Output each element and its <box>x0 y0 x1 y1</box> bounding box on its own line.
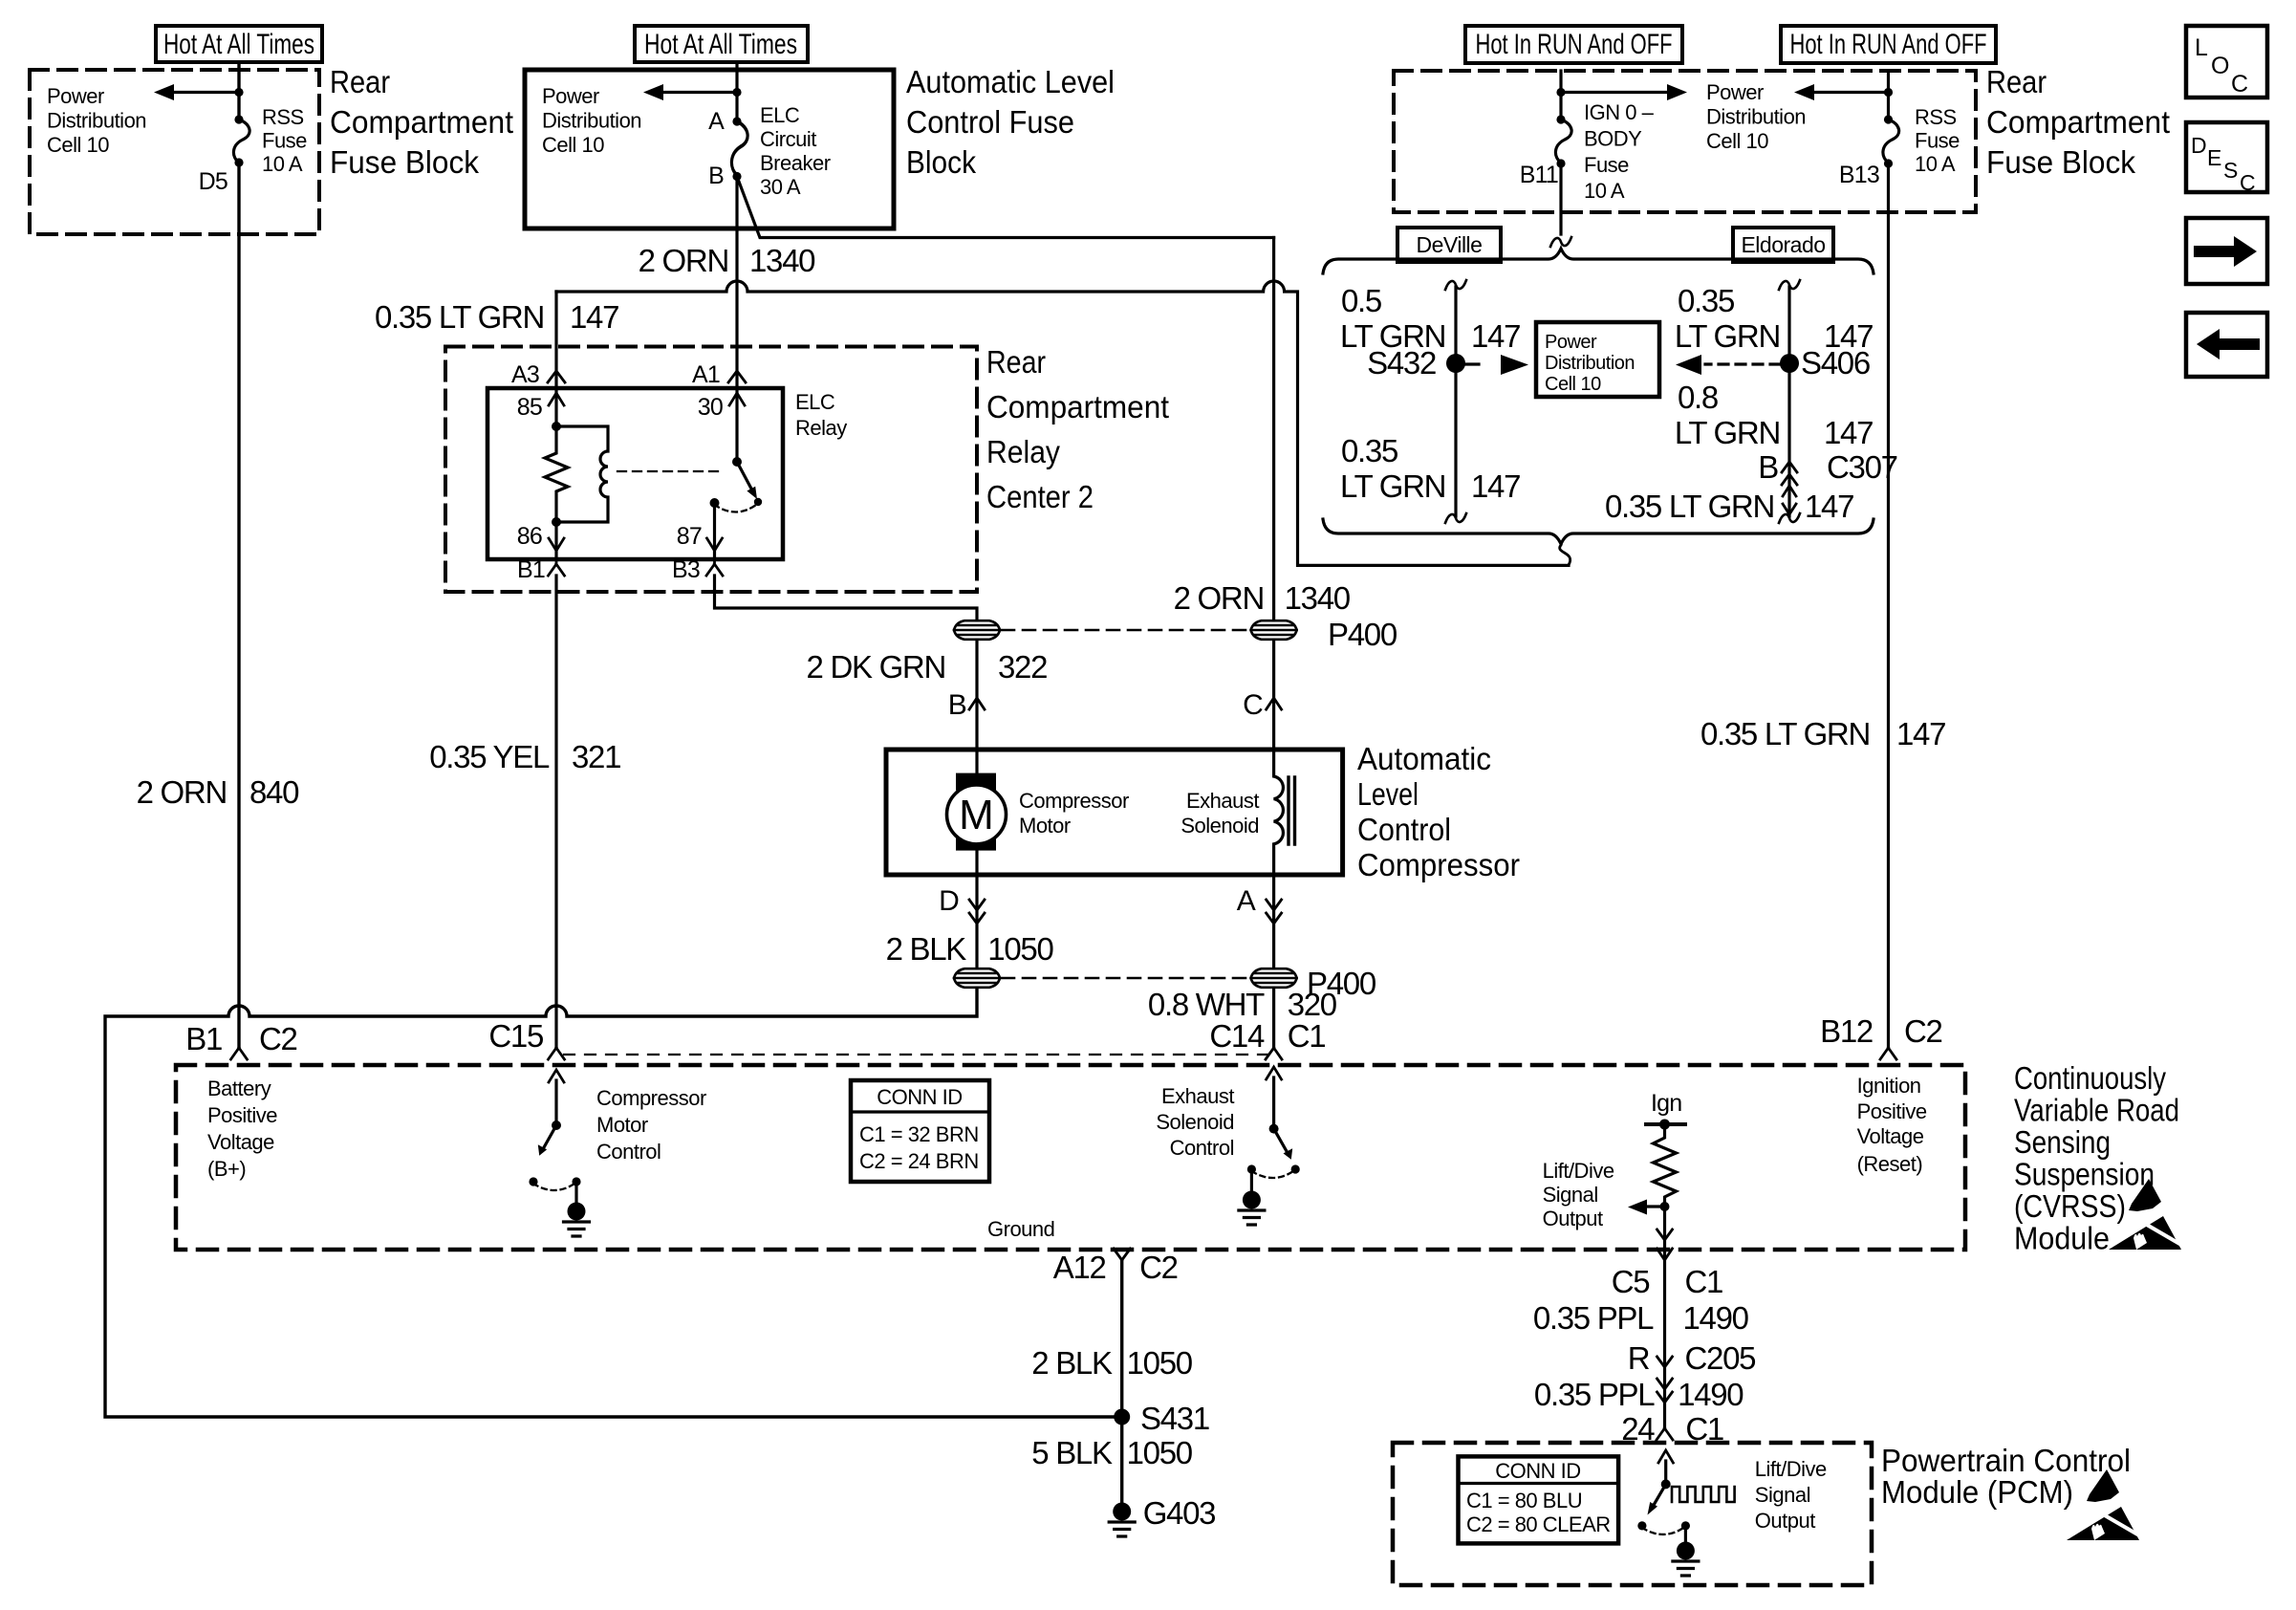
pin 86 arrow <box>549 538 564 551</box>
relay actuation dashed link <box>617 470 721 472</box>
svg-text:Output: Output <box>1543 1207 1603 1230</box>
svg-text:C205: C205 <box>1685 1340 1756 1376</box>
svg-text:L: L <box>2195 34 2208 61</box>
fork A12/C2 <box>1114 1249 1130 1260</box>
svg-text:Cell 10: Cell 10 <box>1706 129 1768 153</box>
svg-text:G403: G403 <box>1143 1495 1216 1531</box>
svg-text:0.35 LT GRN: 0.35 LT GRN <box>375 299 544 335</box>
svg-text:0.8: 0.8 <box>1678 380 1718 415</box>
svg-text:Solenoid: Solenoid <box>1180 814 1259 838</box>
svg-text:Voltage: Voltage <box>207 1130 274 1154</box>
svg-text:Control Fuse: Control Fuse <box>906 104 1074 140</box>
svg-text:0.35 PPL: 0.35 PPL <box>1533 1300 1654 1336</box>
svg-text:C5: C5 <box>1612 1264 1650 1299</box>
relay switch blade <box>737 462 752 490</box>
wire Eldorado 147 <box>1779 280 1800 290</box>
svg-text:Module: Module <box>2014 1221 2110 1256</box>
connector fork B1/C2 <box>231 1048 248 1059</box>
svg-text:B11: B11 <box>1520 162 1558 188</box>
RSS fuse (right) <box>1887 71 1890 120</box>
wire from Hot box to fuse <box>237 62 240 120</box>
fork C14/C1 <box>1266 1048 1282 1059</box>
wire from Hot box into ALC box <box>735 62 738 121</box>
svg-text:147: 147 <box>1471 318 1520 354</box>
svg-text:0.35: 0.35 <box>1678 283 1734 318</box>
svg-text:Block: Block <box>906 144 976 180</box>
svg-text:Compressor: Compressor <box>1357 847 1520 882</box>
svg-text:30 A: 30 A <box>760 175 801 199</box>
compressor motor symbol <box>975 750 978 776</box>
svg-text:Control: Control <box>1170 1136 1234 1160</box>
svg-text:Rear: Rear <box>330 64 390 99</box>
svg-text:2 ORN: 2 ORN <box>1174 580 1264 616</box>
svg-text:Cell 10: Cell 10 <box>1545 374 1601 395</box>
svg-text:LT GRN: LT GRN <box>1340 318 1445 354</box>
svg-text:321: 321 <box>572 739 620 774</box>
svg-text:C1 = 32 BRN: C1 = 32 BRN <box>859 1122 979 1146</box>
svg-text:C15: C15 <box>488 1018 543 1054</box>
svg-text:Signal: Signal <box>1543 1183 1598 1207</box>
dashed arrow S406 to Power Distribution cell <box>1705 362 1780 365</box>
svg-text:Power: Power <box>542 84 599 108</box>
svg-text:C1: C1 <box>1288 1018 1326 1054</box>
wire motor D down <box>975 875 978 968</box>
wire B+ (2 ORN 840) down left side <box>237 163 240 1048</box>
svg-text:CONN ID: CONN ID <box>1495 1459 1580 1483</box>
svg-text:Cell 10: Cell 10 <box>542 133 604 157</box>
wire solenoid A down <box>1272 875 1275 968</box>
svg-text:B13: B13 <box>1839 162 1879 188</box>
svg-text:Positive: Positive <box>1857 1099 1927 1123</box>
dashed link between bottom lenses <box>1002 977 1248 980</box>
svg-text:0.35: 0.35 <box>1341 433 1397 468</box>
wire lens to solenoid (C) <box>1272 641 1275 750</box>
svg-text:30: 30 <box>698 394 723 421</box>
svg-text:Distribution: Distribution <box>542 109 641 133</box>
svg-text:147: 147 <box>1896 716 1945 751</box>
svg-text:R: R <box>1628 1340 1650 1376</box>
fork into PCM <box>1657 1428 1673 1440</box>
svg-text:Powertrain Control: Powertrain Control <box>1881 1443 2131 1478</box>
svg-text:Hot At All Times: Hot At All Times <box>163 29 314 60</box>
svg-text:B: B <box>1758 449 1778 485</box>
svg-text:10 A: 10 A <box>1915 152 1956 176</box>
svg-text:Relay: Relay <box>795 416 847 440</box>
svg-text:IGN 0 –: IGN 0 – <box>1584 100 1655 124</box>
svg-text:Lift/Dive: Lift/Dive <box>1755 1457 1827 1481</box>
wire down from resistor <box>1663 1207 1666 1258</box>
svg-text:Compartment: Compartment <box>986 389 1169 424</box>
pin C chevron <box>1267 698 1282 709</box>
svg-text:Continuously: Continuously <box>2014 1060 2166 1096</box>
svg-text:Fuse Block: Fuse Block <box>330 144 479 180</box>
svg-text:C2: C2 <box>1139 1250 1178 1285</box>
wire DeVille 147 <box>1445 280 1466 290</box>
relay box <box>487 388 783 559</box>
svg-text:Fuse: Fuse <box>262 129 307 153</box>
svg-text:Control: Control <box>1357 812 1451 847</box>
wire B3 to compressor motor branch <box>715 576 978 620</box>
svg-text:B12: B12 <box>1820 1013 1873 1049</box>
ESD symbol (CVRSS) <box>2109 1179 2181 1250</box>
svg-text:Positive: Positive <box>207 1103 277 1127</box>
svg-text:Center 2: Center 2 <box>986 479 1094 514</box>
svg-text:RSS: RSS <box>262 105 304 129</box>
wire CVRSS to PCM (0.35 PPL 1490) <box>1663 1260 1666 1428</box>
svg-text:Exhaust: Exhaust <box>1186 789 1259 813</box>
svg-text:P400: P400 <box>1328 617 1397 652</box>
dashed box: Rear Compartment Fuse Block (right) <box>1394 71 1976 212</box>
ground (compressor motor control) <box>564 1203 590 1237</box>
svg-text:B1: B1 <box>185 1021 222 1056</box>
svg-text:Suspension: Suspension <box>2014 1157 2155 1192</box>
svg-text:Ign: Ign <box>1651 1090 1681 1117</box>
svg-text:A12: A12 <box>1053 1250 1106 1285</box>
svg-text:2 BLK: 2 BLK <box>886 931 967 967</box>
fork C15 <box>549 1048 565 1059</box>
svg-text:LT GRN: LT GRN <box>1340 468 1445 504</box>
wire down to solenoid branch <box>1272 238 1275 620</box>
LOC box <box>2186 26 2267 98</box>
splice S431 <box>1114 1409 1130 1425</box>
junction dot <box>234 88 243 97</box>
compressor motor control switch <box>554 1080 557 1125</box>
solid box: Automatic Level Control Fuse Block <box>525 70 894 228</box>
squiggle below bottom brace <box>1560 545 1570 565</box>
splice S406 <box>1780 354 1799 373</box>
wire B11 top <box>1559 71 1562 120</box>
svg-text:C1: C1 <box>1685 1264 1723 1299</box>
svg-text:0.35 LT GRN: 0.35 LT GRN <box>1700 716 1870 751</box>
svg-text:Distribution: Distribution <box>47 109 146 133</box>
svg-text:B: B <box>708 163 724 189</box>
svg-text:147: 147 <box>1824 318 1873 354</box>
svg-text:A: A <box>708 108 725 135</box>
svg-text:0.35 LT GRN: 0.35 LT GRN <box>1605 489 1774 524</box>
svg-text:BODY: BODY <box>1584 127 1642 151</box>
relay coil <box>556 426 608 522</box>
svg-text:Output: Output <box>1755 1509 1815 1533</box>
dashed box: Rear Compartment Fuse Block (left) <box>30 70 319 234</box>
dashed box PCM <box>1393 1443 1872 1585</box>
header box "Hot In RUN And OFF" (left) <box>1465 26 1682 63</box>
pin B chevron <box>969 698 985 709</box>
svg-text:1050: 1050 <box>987 931 1053 967</box>
svg-text:Distribution: Distribution <box>1545 353 1635 374</box>
arrow S432 to Power Distribution cell <box>1465 362 1479 365</box>
header box "Hot At All Times" (center) <box>635 26 808 62</box>
exhaust solenoid control switch <box>1272 1077 1275 1128</box>
wire C15 (0.35 YEL 321) down <box>554 576 557 1048</box>
svg-text:S: S <box>2223 158 2238 183</box>
svg-text:Hot In RUN And OFF: Hot In RUN And OFF <box>1476 29 1673 60</box>
svg-text:Power: Power <box>47 84 104 108</box>
svg-text:(CVRSS): (CVRSS) <box>2014 1188 2126 1224</box>
svg-text:Relay: Relay <box>986 434 1060 469</box>
svg-text:C2 = 80 CLEAR: C2 = 80 CLEAR <box>1466 1512 1611 1536</box>
svg-text:10 A: 10 A <box>262 152 303 176</box>
fork B3 (relay) <box>706 559 723 576</box>
CONN ID box (PCM) <box>1459 1456 1619 1543</box>
svg-text:M: M <box>959 792 994 838</box>
svg-text:Module (PCM): Module (PCM) <box>1881 1474 2073 1510</box>
ground G403 <box>1109 1503 1135 1537</box>
wire to pin 86 <box>554 522 557 559</box>
back arrow box <box>2186 313 2267 377</box>
svg-text:Automatic: Automatic <box>1357 741 1491 776</box>
svg-text:Lift/Dive: Lift/Dive <box>1543 1159 1614 1183</box>
wire lens to motor (B) <box>975 641 978 750</box>
box DeVille <box>1397 228 1501 262</box>
pin 30 <box>729 393 745 405</box>
DESC box <box>2186 122 2267 192</box>
lift/dive signal output arrow <box>1647 1205 1665 1207</box>
ground return wire to S431 <box>105 989 1122 1417</box>
svg-text:E: E <box>2207 145 2221 170</box>
svg-text:Signal: Signal <box>1755 1483 1810 1507</box>
svg-text:87: 87 <box>677 523 702 550</box>
pin 87 contact dot <box>710 498 720 508</box>
connector lens P400 bottom left <box>954 968 1000 988</box>
svg-text:86: 86 <box>517 523 542 550</box>
svg-text:C: C <box>2240 170 2255 195</box>
IGN 0 - BODY fuse <box>1555 120 1571 163</box>
top brace <box>1323 249 1874 273</box>
svg-text:Fuse: Fuse <box>1915 129 1960 153</box>
pin A double chevron <box>1267 900 1282 924</box>
svg-text:C1 = 80 BLU: C1 = 80 BLU <box>1466 1489 1582 1512</box>
svg-text:Variable Road: Variable Road <box>2014 1093 2179 1128</box>
arrow right to Power Distribution <box>1561 91 1667 94</box>
dashed box: Rear Compartment Relay Center 2 <box>445 347 977 593</box>
fork B12/C2 <box>1880 1048 1896 1059</box>
wire 0.35 LT GRN 147 horizontal with hops <box>556 281 1569 565</box>
svg-text:147: 147 <box>1805 489 1853 524</box>
forward arrow box <box>2186 218 2267 284</box>
wire A12 to G403 <box>1120 1260 1123 1502</box>
wire B11 lower + squiggle <box>1559 163 1562 234</box>
ESD symbol (PCM) <box>2067 1469 2139 1540</box>
svg-text:Hot In RUN And OFF: Hot In RUN And OFF <box>1790 29 1987 60</box>
svg-text:Rear: Rear <box>1986 64 2047 99</box>
svg-text:Ignition: Ignition <box>1857 1074 1921 1098</box>
svg-text:Circuit: Circuit <box>760 127 816 151</box>
svg-text:C307: C307 <box>1827 449 1897 485</box>
svg-text:S431: S431 <box>1140 1401 1209 1436</box>
svg-text:Battery: Battery <box>207 1077 271 1100</box>
pin A3 <box>548 371 565 382</box>
svg-text:D: D <box>2191 133 2206 158</box>
svg-text:1340: 1340 <box>749 243 815 278</box>
svg-text:Fuse: Fuse <box>1584 153 1629 177</box>
svg-text:Motor: Motor <box>596 1113 648 1137</box>
pin D double chevron <box>969 900 985 924</box>
pin 85 <box>549 393 564 405</box>
svg-text:320: 320 <box>1288 987 1337 1022</box>
svg-text:2 BLK: 2 BLK <box>1031 1345 1113 1381</box>
svg-text:Cell 10: Cell 10 <box>47 133 109 157</box>
svg-text:Level: Level <box>1357 776 1419 812</box>
svg-text:2 ORN: 2 ORN <box>639 243 728 278</box>
RSS fuse <box>233 120 249 163</box>
svg-text:0.8 WHT: 0.8 WHT <box>1148 987 1265 1022</box>
svg-text:Hot At All Times: Hot At All Times <box>644 29 797 60</box>
box Power Distribution Cell 10 (small) <box>1536 322 1659 397</box>
svg-text:0.35 PPL: 0.35 PPL <box>1534 1377 1655 1412</box>
svg-text:1490: 1490 <box>1683 1300 1749 1336</box>
dashed box CVRSS <box>176 1065 1965 1250</box>
dashed link between lenses <box>1002 629 1248 632</box>
svg-text:Control: Control <box>596 1140 661 1164</box>
svg-text:Compartment: Compartment <box>1986 104 2170 140</box>
svg-text:(Reset): (Reset) <box>1857 1152 1923 1176</box>
svg-text:2 DK GRN: 2 DK GRN <box>807 649 945 685</box>
dashed throw arc <box>715 505 757 512</box>
svg-text:ELC: ELC <box>760 103 800 127</box>
svg-text:Power: Power <box>1545 332 1597 353</box>
square wave symbol <box>1672 1487 1735 1502</box>
svg-text:Eldorado: Eldorado <box>1741 232 1825 257</box>
svg-text:C: C <box>2231 71 2248 98</box>
bottom brace <box>1323 519 1874 544</box>
svg-text:LT GRN: LT GRN <box>1675 415 1780 450</box>
svg-text:C2 = 24 BRN: C2 = 24 BRN <box>859 1149 979 1173</box>
svg-text:Breaker: Breaker <box>760 151 831 175</box>
svg-text:840: 840 <box>249 774 299 810</box>
connector lens P400 top left <box>954 620 1000 640</box>
svg-text:147: 147 <box>1471 468 1520 504</box>
header box "Hot In RUN And OFF" (right) <box>1781 26 1996 63</box>
svg-text:Rear: Rear <box>986 344 1046 380</box>
svg-text:Automatic Level: Automatic Level <box>906 64 1115 99</box>
svg-text:85: 85 <box>517 394 542 421</box>
junction dot <box>732 88 741 97</box>
svg-text:322: 322 <box>998 649 1047 685</box>
PCM lift/dive switch <box>1664 1461 1667 1484</box>
svg-text:Ground: Ground <box>987 1217 1054 1241</box>
svg-text:147: 147 <box>1824 415 1873 450</box>
connector lens P400 bottom right <box>1251 968 1297 988</box>
svg-text:1050: 1050 <box>1127 1345 1193 1381</box>
svg-text:(B+): (B+) <box>207 1157 246 1181</box>
svg-text:B3: B3 <box>672 556 700 583</box>
pin A1 <box>728 371 746 382</box>
svg-text:LT GRN: LT GRN <box>1675 318 1780 354</box>
svg-text:DeVille: DeVille <box>1417 232 1483 257</box>
wire A3 branch down <box>554 292 557 426</box>
svg-text:C: C <box>1243 689 1263 721</box>
svg-text:147: 147 <box>570 299 618 335</box>
arrow to power distribution <box>174 91 239 94</box>
svg-text:1490: 1490 <box>1678 1377 1744 1412</box>
svg-text:D5: D5 <box>199 168 227 195</box>
exhaust solenoid coil <box>1274 750 1284 875</box>
thin dashed connector line <box>564 1054 1268 1055</box>
header box "Hot At All Times" (left) <box>156 26 322 62</box>
arrow to power distribution <box>663 91 737 94</box>
svg-text:Voltage: Voltage <box>1857 1124 1924 1148</box>
svg-text:C2: C2 <box>259 1021 297 1056</box>
svg-text:O: O <box>2211 53 2229 79</box>
ground (PCM switch) <box>1673 1542 1699 1577</box>
svg-text:CONN ID: CONN ID <box>877 1085 962 1109</box>
svg-text:Compressor: Compressor <box>1019 789 1129 813</box>
relay resistor <box>545 426 568 522</box>
svg-text:Solenoid: Solenoid <box>1156 1110 1234 1134</box>
svg-text:Sensing: Sensing <box>2014 1124 2111 1160</box>
CONN ID box (CVRSS) <box>851 1080 989 1182</box>
svg-text:0.5: 0.5 <box>1341 283 1381 318</box>
connector lens P400 top right <box>1251 620 1297 640</box>
pin 87 arrow <box>707 538 723 551</box>
lift/dive resistor <box>1654 1124 1677 1207</box>
svg-text:1050: 1050 <box>1127 1435 1193 1470</box>
svg-text:RSS: RSS <box>1915 105 1957 129</box>
relay switch pivot dot <box>732 457 742 467</box>
svg-text:Motor: Motor <box>1019 814 1071 838</box>
svg-text:0.35 YEL: 0.35 YEL <box>429 739 550 774</box>
svg-text:Fuse Block: Fuse Block <box>1986 144 2135 180</box>
wire A to CVRSS C14 <box>1272 989 1275 1048</box>
svg-text:A1: A1 <box>692 361 720 388</box>
svg-text:A: A <box>1237 885 1256 917</box>
svg-text:B1: B1 <box>517 556 545 583</box>
compressor assembly box <box>886 750 1343 875</box>
svg-text:2 ORN: 2 ORN <box>137 774 227 810</box>
svg-text:Compartment: Compartment <box>330 104 513 140</box>
svg-text:B: B <box>948 689 966 721</box>
wire pin 87 <box>713 503 716 559</box>
svg-text:C14: C14 <box>1209 1018 1265 1054</box>
splice S432 <box>1446 354 1465 373</box>
svg-text:D: D <box>939 885 959 917</box>
arrow left to Power Distribution <box>1814 91 1889 94</box>
wire from breaker B down to relay pin A1/30 <box>735 177 738 463</box>
svg-text:5 BLK: 5 BLK <box>1031 1435 1113 1470</box>
svg-text:1340: 1340 <box>1285 580 1351 616</box>
svg-text:Distribution: Distribution <box>1706 105 1806 129</box>
relay coil junction bottom <box>552 517 561 527</box>
svg-text:Power: Power <box>1706 80 1764 104</box>
box Eldorado <box>1733 228 1833 262</box>
ground (exhaust solenoid control) <box>1239 1191 1265 1226</box>
wire B13 / 0.35 LT GRN 147 long right wire <box>1887 163 1890 1048</box>
svg-text:Exhaust: Exhaust <box>1161 1084 1234 1108</box>
relay coil junction top <box>552 422 561 431</box>
svg-text:ELC: ELC <box>795 390 835 414</box>
svg-text:A3: A3 <box>511 361 539 388</box>
svg-text:10 A: 10 A <box>1584 179 1625 203</box>
svg-text:C2: C2 <box>1904 1013 1942 1049</box>
diagonal wire from breaker B to line toward P400 <box>737 177 1274 238</box>
fork B1 (relay) <box>549 559 565 576</box>
svg-text:Compressor: Compressor <box>596 1086 706 1110</box>
